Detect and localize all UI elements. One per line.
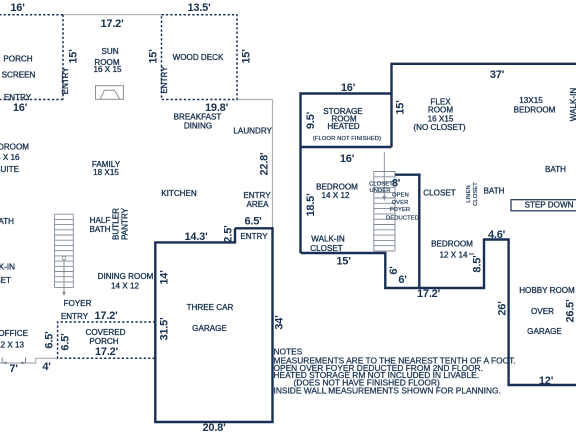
svg-text:6.5': 6.5'	[43, 331, 55, 349]
svg-text:DINING ROOM: DINING ROOM	[98, 272, 154, 281]
svg-text:ENTRY: ENTRY	[61, 312, 89, 321]
svg-text:20.8': 20.8'	[202, 422, 226, 432]
svg-text:8': 8'	[392, 178, 401, 190]
svg-text:BUTLER: BUTLER	[112, 208, 121, 240]
svg-text:ENTRY: ENTRY	[4, 93, 32, 102]
svg-text:14 X 12: 14 X 12	[111, 282, 139, 291]
svg-text:22.8': 22.8'	[258, 152, 270, 176]
svg-text:LAUNDRY: LAUNDRY	[233, 127, 272, 136]
svg-text:14 X 16: 14 X 16	[0, 153, 20, 162]
svg-text:15': 15'	[336, 256, 351, 268]
svg-text:CLOSET: CLOSET	[369, 182, 393, 188]
svg-text:BEDROOM: BEDROOM	[431, 240, 473, 249]
svg-text:PORCH: PORCH	[89, 337, 118, 346]
svg-text:14 X 12: 14 X 12	[322, 191, 350, 200]
svg-text:9.5': 9.5'	[305, 111, 317, 129]
svg-text:OFFICE: OFFICE	[0, 329, 29, 338]
svg-text:4.6': 4.6'	[488, 229, 506, 241]
svg-text:12 X 13: 12 X 13	[0, 341, 24, 350]
svg-text:WALK-IN: WALK-IN	[311, 235, 345, 244]
svg-text:ENTRY: ENTRY	[243, 191, 271, 200]
svg-text:SUN: SUN	[101, 47, 118, 56]
svg-text:37': 37'	[490, 69, 505, 81]
svg-text:BATH: BATH	[484, 187, 505, 196]
svg-text:6.5': 6.5'	[244, 216, 262, 228]
svg-text:OPEN: OPEN	[392, 193, 409, 199]
svg-text:ENTRY: ENTRY	[240, 232, 268, 241]
svg-text:7': 7'	[9, 363, 18, 375]
svg-text:DEDUCTED: DEDUCTED	[386, 216, 419, 222]
svg-text:BEDROOM: BEDROOM	[514, 106, 556, 115]
svg-text:BATH: BATH	[90, 225, 111, 234]
svg-text:GARAGE: GARAGE	[192, 324, 227, 333]
svg-text:UNDER: UNDER	[369, 188, 390, 194]
svg-text:(FLOOR NOT FINISHED): (FLOOR NOT FINISHED)	[313, 136, 381, 142]
svg-text:AREA: AREA	[246, 200, 269, 209]
svg-text:BATH: BATH	[545, 165, 566, 174]
svg-text:SUITE: SUITE	[0, 165, 20, 174]
svg-text:SCREEN: SCREEN	[2, 70, 36, 79]
svg-text:WALK-IN: WALK-IN	[0, 263, 15, 272]
svg-text:PORCH: PORCH	[3, 54, 32, 63]
svg-text:FOYER: FOYER	[64, 299, 92, 308]
svg-text:THREE CAR: THREE CAR	[187, 303, 234, 312]
svg-text:6': 6'	[398, 274, 407, 286]
svg-text:12 X 14: 12 X 14	[440, 251, 468, 260]
svg-text:17.2': 17.2'	[100, 18, 124, 30]
svg-text:CLOSET: CLOSET	[0, 276, 11, 285]
svg-text:BATH: BATH	[0, 217, 14, 226]
svg-text:HALF: HALF	[90, 216, 111, 225]
svg-text:18 X15: 18 X15	[93, 168, 119, 177]
svg-text:CLOSET: CLOSET	[310, 244, 342, 253]
svg-text:ENTRY: ENTRY	[61, 67, 70, 95]
svg-text:4': 4'	[42, 361, 51, 373]
svg-text:16': 16'	[13, 102, 28, 114]
svg-text:15': 15'	[394, 100, 406, 115]
svg-text:26.5': 26.5'	[564, 299, 576, 323]
svg-text:WALK-IN: WALK-IN	[569, 88, 576, 122]
svg-text:31.5': 31.5'	[158, 317, 170, 341]
svg-text:LINEN: LINEN	[466, 185, 472, 203]
svg-text:BREAKFAST: BREAKFAST	[174, 113, 222, 122]
svg-text:STEP DOWN: STEP DOWN	[525, 201, 574, 210]
svg-text:16 X 15: 16 X 15	[94, 65, 122, 74]
svg-text:KITCHEN: KITCHEN	[161, 189, 197, 198]
svg-text:13X15: 13X15	[519, 96, 543, 105]
svg-text:14': 14'	[158, 270, 170, 285]
svg-text:(NO CLOSET): (NO CLOSET)	[413, 123, 465, 132]
svg-text:HEATED: HEATED	[327, 122, 359, 131]
svg-text:CLOSET: CLOSET	[473, 182, 479, 206]
svg-text:2.5': 2.5'	[222, 225, 234, 243]
svg-text:FOYER: FOYER	[390, 207, 410, 213]
svg-text:17.2': 17.2'	[94, 310, 118, 322]
svg-text:DINING: DINING	[184, 122, 212, 131]
svg-text:16': 16'	[341, 82, 356, 94]
svg-text:CLOSET: CLOSET	[423, 189, 455, 198]
svg-text:INSIDE WALL MEASUREMENTS SHOWN: INSIDE WALL MEASUREMENTS SHOWN FOR PLANN…	[274, 386, 501, 396]
svg-text:8.5': 8.5'	[471, 255, 483, 273]
svg-text:OVER: OVER	[531, 307, 554, 316]
svg-text:26': 26'	[496, 301, 508, 316]
svg-text:17.2': 17.2'	[95, 346, 119, 358]
svg-text:16': 16'	[10, 2, 25, 14]
svg-text:BEDROOM: BEDROOM	[0, 143, 29, 152]
svg-text:34': 34'	[273, 315, 285, 330]
svg-text:COVERED: COVERED	[85, 328, 125, 337]
svg-text:6.5': 6.5'	[59, 333, 71, 351]
svg-text:16': 16'	[340, 153, 355, 165]
svg-text:17.2': 17.2'	[417, 288, 441, 300]
svg-text:13.5': 13.5'	[187, 2, 211, 14]
svg-text:14.3': 14.3'	[184, 231, 208, 243]
svg-text:OVER: OVER	[392, 200, 409, 206]
svg-text:ENTRY: ENTRY	[160, 66, 169, 94]
svg-text:ROOM: ROOM	[428, 106, 453, 115]
svg-text:15': 15'	[147, 49, 159, 64]
svg-text:GARAGE: GARAGE	[527, 327, 562, 336]
svg-text:15': 15'	[240, 49, 252, 64]
svg-text:12': 12'	[539, 375, 554, 387]
svg-text:HOBBY ROOM: HOBBY ROOM	[519, 286, 575, 295]
svg-text:WOOD DECK: WOOD DECK	[173, 53, 224, 62]
svg-text:18.5': 18.5'	[305, 193, 317, 217]
svg-text:15': 15'	[67, 49, 79, 64]
svg-text:PANTRY: PANTRY	[121, 207, 130, 240]
